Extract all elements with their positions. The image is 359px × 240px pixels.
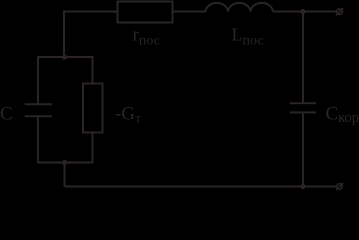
terminal top-right [336,8,343,15]
svg-text:C: C [0,104,13,125]
wire left branch upper [37,57,39,104]
resistor r_пос [118,2,173,23]
capacitor C_кор plates [290,102,317,104]
wire right branch lower [92,133,94,164]
wire top-left vertical [63,12,65,58]
terminal bottom-right [336,183,343,190]
inductor L_пос [206,3,274,12]
wire right branch C_кор lower [302,112,304,186]
node junction top rail [300,9,305,14]
capacitor C plates [25,103,52,105]
wire left branch lower [37,116,39,163]
wire inductor to top terminal [273,11,337,13]
node junction bottom rail [300,184,305,189]
node junction bottom of block [62,160,67,165]
wire bottom rail [65,186,337,188]
negative conductance -G box [83,84,103,133]
node junction top of block [62,54,67,59]
wire parallel-block top [37,56,94,58]
wire right branch upper [92,57,94,84]
wire parallel-block bottom [37,162,94,164]
wire top rail left segment [63,11,118,13]
wire right branch C_кор upper [302,12,304,104]
wire resistor to inductor [173,11,206,13]
wire junction drop [64,163,66,187]
